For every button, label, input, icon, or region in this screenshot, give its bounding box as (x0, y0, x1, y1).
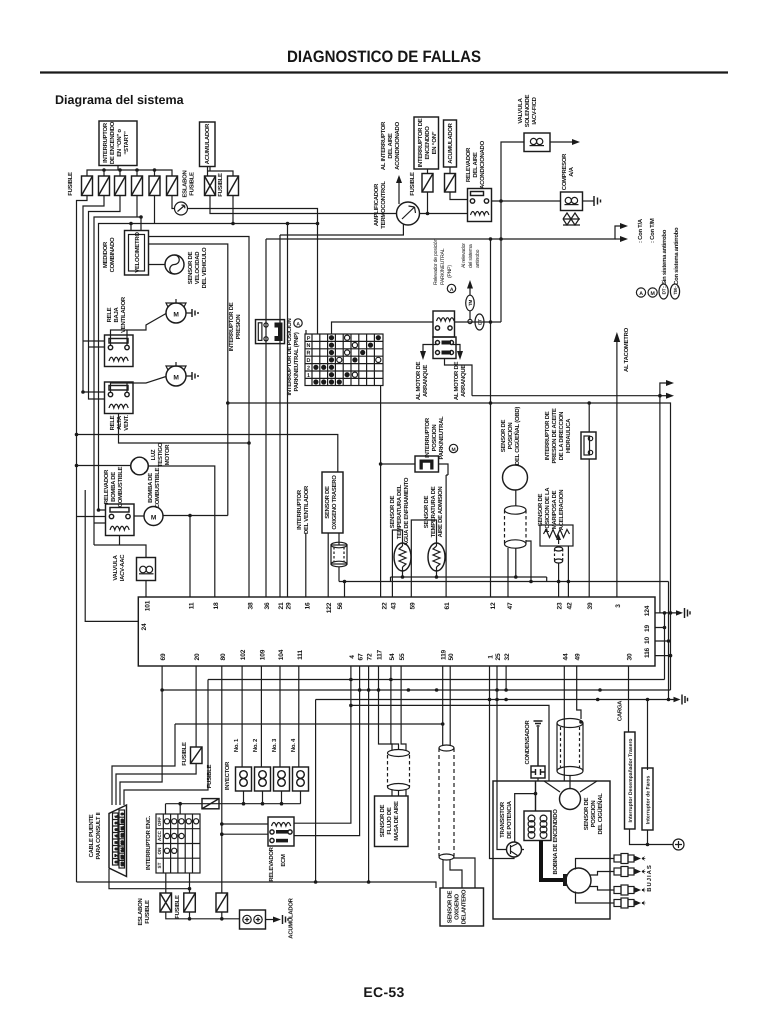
box SENSOR DE OXIGENO DELANTERO (440, 888, 484, 926)
fuse F2 (99, 176, 110, 196)
box INTERRUPTOR DE ENCENDIDO EN "ON" o "START" (99, 121, 137, 166)
relay relevador PNP (433, 311, 455, 337)
svg-text:COMPRESOR: COMPRESOR (561, 153, 568, 190)
svg-text:AMPLIFICADOR: AMPLIFICADOR (373, 183, 380, 226)
wire injector bottoms to bus y=803.7 (166, 791, 301, 814)
wire horizontal bus y=443 (119, 414, 250, 444)
svg-text:No. 1: No. 1 (233, 738, 240, 752)
svg-text:R: R (307, 351, 311, 357)
svg-text:(PNP): (PNP) (447, 265, 453, 278)
svg-text:N: N (307, 343, 311, 349)
relay RELEVADOR BOMBA DE COMBUSTIBLE (106, 504, 135, 536)
svg-text:5: 5 (115, 842, 119, 844)
svg-text:38: 38 (248, 602, 255, 609)
svg-text:102: 102 (240, 649, 247, 660)
svg-text:D: D (307, 358, 311, 364)
wire bus to relay bomba / relay to motor / motor to pin11 (77, 510, 228, 597)
wire pin72 down to bus y883.8 (368, 666, 370, 882)
symbol M circle (PNP switch) (449, 444, 457, 452)
svg-text:4: 4 (115, 835, 119, 837)
wire connector circle to right power bus (188, 209, 318, 335)
svg-text:BOMBA DE: BOMBA DE (147, 473, 154, 503)
fuse F13 (216, 893, 228, 912)
svg-text:OXIGENO: OXIGENO (454, 893, 461, 919)
lamp LUZ TESTIGO MOTOR (131, 457, 149, 475)
injector No.3 (274, 767, 290, 791)
svg-text:56: 56 (337, 602, 344, 609)
svg-text:2: 2 (307, 365, 310, 371)
svg-text:PARK/NEUTRAL (PNP): PARK/NEUTRAL (PNP) (293, 332, 300, 391)
node + circle (673, 839, 684, 850)
svg-text:10: 10 (644, 637, 651, 644)
svg-text:67: 67 (358, 653, 365, 660)
svg-text:ARRANQUE: ARRANQUE (460, 365, 467, 397)
svg-text:11: 11 (188, 602, 195, 609)
wire velocimetro to sensor (149, 264, 166, 266)
svg-text:BOMBA DE: BOMBA DE (110, 472, 117, 502)
svg-text:Al relevador: Al relevador (461, 243, 467, 268)
svg-text:VALVULA: VALVULA (517, 97, 524, 123)
fuse F4 (132, 176, 143, 196)
wire bus y=403 corner down right (228, 403, 671, 690)
wire staircase fuse F4 to bus x=94 (94, 196, 141, 546)
svg-text:DEL AIRE: DEL AIRE (387, 133, 394, 158)
svg-text:DEL VENTILADOR: DEL VENTILADOR (303, 485, 310, 534)
wire interruptores to +circle (630, 829, 674, 845)
wire branch to transistor (515, 794, 536, 842)
wire pin117 down to MAF (379, 666, 393, 750)
svg-text:INTERRUPTOR: INTERRUPTOR (296, 489, 303, 530)
svg-text:ACUMULADOR: ACUMULADOR (204, 123, 211, 164)
wire top bus connecting fuses (87, 170, 172, 176)
svg-text:DT: DT (478, 319, 483, 325)
crank sensor OBD cylinder (505, 490, 527, 548)
ignition switch grid (156, 814, 200, 873)
wire bus y=395.7 with double arrows right (445, 359, 669, 396)
wire bus y=679.5 (124, 680, 665, 806)
svg-text:: Con sistema antirrobo: : Con sistema antirrobo (673, 227, 680, 288)
svg-text:80: 80 (220, 653, 227, 660)
amplificador termocontrol circle (397, 202, 420, 225)
wire bus y=699.5 (316, 700, 674, 883)
relay RELEVADOR ECM (268, 817, 294, 846)
wire pin49 to resistor top (577, 666, 581, 719)
sensor velocidad circle (165, 255, 184, 274)
wire oxigeno trasero to pin56 / bus (327, 533, 329, 597)
svg-text:IACV-AAC: IACV-AAC (119, 554, 126, 581)
svg-text:ON: ON (157, 847, 162, 855)
svg-text:ST: ST (157, 862, 162, 868)
wire battery bus (166, 912, 240, 919)
box ACUMULADOR (top) (200, 122, 216, 167)
svg-text:104: 104 (278, 649, 285, 660)
wire bus y=690 with end arrow (162, 689, 670, 691)
CONSULT connector J1 (109, 805, 127, 877)
wire compresor to ground (583, 200, 595, 202)
svg-text:No. 4: No. 4 (290, 738, 297, 752)
wire fuse F9 to relay (450, 192, 468, 200)
svg-text:9: 9 (121, 813, 125, 815)
wire horizontal bus y=434.5 (77, 435, 338, 473)
svg-text:DEL AIRE: DEL AIRE (472, 152, 479, 177)
svg-text:INTERRUPTOR DE: INTERRUPTOR DE (544, 411, 551, 460)
svg-text:DEL VEHICULO: DEL VEHICULO (201, 247, 208, 288)
svg-text:VENTILADOR: VENTILADOR (120, 296, 127, 333)
svg-text:PARA CONSULT II: PARA CONSULT II (95, 812, 102, 859)
svg-text:30: 30 (627, 653, 634, 660)
svg-text:21: 21 (278, 602, 285, 609)
svg-text:49: 49 (575, 653, 582, 660)
svg-text:POSICION: POSICION (431, 425, 438, 452)
distributor assembly box (493, 781, 610, 919)
wire OBD cylinder to pins 12/47 (508, 541, 531, 597)
valve VALVULA IACV-AAC (137, 558, 156, 581)
wire pin4 down to relay ECM (294, 666, 351, 823)
wire ignition grid bottom to fusible link (166, 873, 190, 893)
svg-text:ACONDICIONADO: ACONDICIONADO (394, 121, 401, 169)
svg-text:Interruptor de Faros: Interruptor de Faros (646, 775, 652, 824)
svg-text:DELANTERO: DELANTERO (461, 889, 468, 924)
fusible link FL2 (160, 893, 172, 912)
svg-text:3: 3 (615, 604, 622, 608)
wire pin54 down to MAF (391, 666, 399, 750)
svg-text:SENSOR DE: SENSOR DE (379, 804, 386, 837)
wire AL TACOMETRO arrow (616, 340, 618, 597)
wire PNP chart connections down to ECM pins 16/122/56 (380, 386, 382, 465)
svg-text:CABLE PUENTE: CABLE PUENTE (88, 814, 95, 857)
wire condenser to dist box (537, 778, 539, 781)
svg-text:50: 50 (448, 653, 455, 660)
wire velocimetro right lower to x227.8 drop (149, 244, 228, 516)
wire pin44 down to dist box (563, 666, 565, 781)
right vertical bus wires (660, 396, 665, 680)
relay RELE BAJA VENTILADOR (105, 335, 134, 367)
svg-text:12: 12 (121, 833, 125, 837)
fuse F6 (167, 176, 178, 196)
wire valvula to pin101 and bus (145, 581, 147, 598)
svg-text:A/A: A/A (568, 166, 575, 176)
svg-text:TRANSISTOR: TRANSISTOR (499, 801, 506, 838)
chart open contacts (337, 335, 381, 377)
svg-text:36: 36 (264, 602, 271, 609)
wire oil switch up to bus and down to pin39 (588, 403, 590, 597)
svg-text:ECM: ECM (280, 854, 287, 867)
wire fuse F8 down to amplificador line (427, 192, 429, 214)
svg-text:FUSIBLE: FUSIBLE (217, 173, 224, 197)
fuse F3 (115, 176, 126, 196)
svg-text:18: 18 (213, 602, 220, 609)
wire bus y=705.4 (351, 705, 549, 781)
wire valvula solenoide right arrow (550, 141, 573, 143)
junction dots on buses (349, 678, 353, 682)
svg-text:DE ENCENDIDO: DE ENCENDIDO (109, 121, 116, 164)
legend symbols (636, 218, 680, 299)
double arrow node (top right) (266, 226, 622, 239)
motor ventilador 1 (166, 299, 198, 323)
box Interruptor de Faros (642, 768, 653, 830)
svg-text:M: M (151, 515, 157, 522)
svg-text:1: 1 (307, 373, 310, 379)
svg-text:39: 39 (587, 602, 594, 609)
compresor mount symbol (563, 213, 580, 225)
svg-text:22: 22 (382, 602, 389, 609)
wire fusible link down then right (bus y=217) (210, 196, 397, 214)
svg-text:VENT.: VENT. (123, 415, 130, 431)
svg-text:29: 29 (286, 602, 293, 609)
ECM box U1 (138, 597, 655, 666)
svg-text:DE LA DIRECCION: DE LA DIRECCION (558, 412, 565, 460)
wire bus y=724 (112, 724, 443, 805)
wire amplificador left to bus (420, 213, 468, 215)
svg-text:Relevador de posición: Relevador de posición (433, 239, 439, 285)
svg-text:117: 117 (377, 649, 384, 660)
svg-text:116: 116 (644, 647, 651, 658)
svg-text:14: 14 (121, 848, 125, 852)
svg-text:EN “ON”: EN “ON” (431, 131, 438, 154)
svg-text:SOLENOIDE: SOLENOIDE (524, 94, 531, 127)
svg-text:M: M (452, 447, 456, 453)
svg-text:55: 55 (399, 653, 406, 660)
throttle position sensor (540, 525, 573, 546)
rear oxygen sensor cylinder (331, 533, 347, 567)
svg-text:COMBUSTIBLE: COMBUSTIBLE (154, 467, 161, 508)
svg-text:VELOCIDAD: VELOCIDAD (194, 252, 201, 284)
svg-text:COMBUSTIBLE: COMBUSTIBLE (117, 466, 124, 507)
wire middle vertical drops x266/x280/x287.5 from top bus (266, 224, 288, 598)
svg-text:SENSOR DE: SENSOR DE (583, 797, 590, 830)
svg-text:ACELERACION: ACELERACION (558, 490, 565, 530)
symbol A circle (PNP relay) (447, 284, 455, 292)
injector No.2 (255, 767, 271, 791)
spark plug 1 (614, 854, 646, 864)
svg-text:INTERRUPTOR DE: INTERRUPTOR DE (228, 302, 235, 351)
thermistor agua (394, 543, 411, 572)
wire fuse F6 to connector circle (172, 196, 175, 209)
fuse F12 (184, 893, 196, 912)
svg-text:124: 124 (644, 605, 651, 616)
svg-text:1: 1 (115, 816, 119, 818)
svg-text:antirrobo: antirrobo (475, 249, 481, 268)
svg-text:FUSIBLE: FUSIBLE (206, 764, 213, 788)
fuse F8 (AC) (422, 174, 433, 193)
svg-text:13: 13 (121, 841, 125, 845)
motor ventilador 2 (166, 362, 198, 386)
svg-text:POSICION: POSICION (590, 801, 597, 828)
wire thermistors bottom bus (339, 567, 669, 700)
svg-text:MEDIDOR: MEDIDOR (102, 241, 109, 268)
svg-text:RELE: RELE (106, 307, 113, 322)
svg-text:ESLABON: ESLABON (182, 170, 189, 197)
svg-text:AIRE DE ADMISION: AIRE DE ADMISION (437, 487, 444, 538)
svg-text:VALVULA: VALVULA (112, 554, 119, 580)
wires MAF cylinder to label box (392, 790, 406, 797)
fuse F11 (horizontal on bus) (202, 799, 219, 809)
wire pin32 down to bus (505, 666, 507, 690)
svg-text:SENSOR DE: SENSOR DE (500, 419, 507, 452)
svg-text:SENSOR DE: SENSOR DE (187, 251, 194, 284)
chart contact dots (313, 335, 381, 385)
wire pin25 down (496, 666, 498, 781)
wire pin69 down to ignition area (120, 666, 162, 805)
svg-text:“START”: “START” (123, 131, 130, 155)
svg-text:BUJIAS: BUJIAS (646, 864, 653, 892)
svg-text:61: 61 (444, 602, 451, 609)
svg-text:109: 109 (259, 649, 266, 660)
wire fuse F10 down to bottom fuse (116, 764, 196, 806)
svg-text:INTERRUPTOR: INTERRUPTOR (102, 122, 109, 163)
svg-text:PRESION: PRESION (235, 315, 242, 340)
PNP contact chart grid (305, 334, 383, 386)
svg-text:ALTA: ALTA (116, 415, 123, 430)
wire pin1 down (489, 666, 491, 781)
svg-text:INYECTOR: INYECTOR (224, 761, 231, 790)
wires AL MOTOR DE ARRANQUE arrows (423, 345, 460, 353)
svg-text:PARK/NEUTRAL: PARK/NEUTRAL (438, 416, 445, 460)
svg-text:20: 20 (194, 653, 201, 660)
svg-text:MASA DE AIRE: MASA DE AIRE (393, 801, 400, 841)
svg-text:25: 25 (495, 653, 502, 660)
injector No.1 (236, 767, 252, 791)
fuse F10 (injectors) (191, 747, 203, 764)
spark plug 4 (614, 898, 646, 908)
svg-text:32: 32 (504, 653, 511, 660)
svg-text:101: 101 (145, 600, 152, 611)
svg-text:ACONDICIONADO: ACONDICIONADO (479, 140, 486, 188)
svg-text:P: P (307, 336, 311, 342)
box ACUMULADOR (right) (444, 120, 457, 167)
connector box below relay PNP (433, 337, 456, 359)
wire bus to relay alta coil (83, 347, 105, 399)
svg-text:6: 6 (115, 848, 119, 850)
wire transistor connections (490, 781, 525, 859)
wire pin55 down to MAF (401, 666, 406, 750)
svg-text:M: M (173, 375, 179, 382)
svg-text:AL TACOMETRO: AL TACOMETRO (623, 327, 630, 372)
svg-text:CARGA: CARGA (617, 700, 624, 721)
svg-text:EN “ON” o: EN “ON” o (116, 129, 123, 157)
wire battery to ground arrow (266, 919, 275, 921)
wire ignition grid top to bus (179, 804, 181, 814)
svg-text:AL MOTOR DE: AL MOTOR DE (453, 362, 460, 401)
svg-text:15: 15 (121, 855, 125, 859)
battery ACUMULADOR (240, 910, 266, 929)
svg-text:INTERRUPTOR ENC.: INTERRUPTOR ENC. (145, 815, 152, 870)
svg-text:: Con T/A: : Con T/A (637, 218, 644, 243)
svg-text:TM: TM (468, 300, 473, 307)
svg-text:: Con T/M: : Con T/M (649, 218, 656, 243)
svg-text:FLUJO DE: FLUJO DE (386, 807, 393, 834)
svg-text:72: 72 (367, 653, 374, 660)
compresor A/A box (561, 192, 583, 211)
PNP switch component (415, 456, 439, 472)
wire fuses to boxes (428, 167, 451, 174)
ground (compresor) (594, 196, 601, 206)
wire bus y883.8 to front O2 box (316, 882, 436, 888)
relay RELEVADOR DEL AIRE ACONDICIONADO (468, 189, 492, 222)
title rule (40, 71, 728, 73)
svg-text:1: 1 (488, 655, 495, 659)
junction dots on fuse bus (102, 168, 106, 172)
svg-text:DEL CIGÜEÑAL (OBD): DEL CIGÜEÑAL (OBD) (513, 407, 521, 465)
svg-text:ACC: ACC (157, 830, 162, 841)
crank angle sensor circle (560, 789, 581, 810)
wires distributor to spark plugs (576, 859, 615, 904)
svg-text:LUZ: LUZ (150, 449, 157, 460)
wire arrow up from amplificador (398, 181, 400, 204)
svg-text:EC-53: EC-53 (363, 984, 404, 1000)
svg-text:PRESION DE ACEITE: PRESION DE ACEITE (551, 408, 558, 463)
svg-text:IACV-FICD: IACV-FICD (531, 97, 538, 124)
svg-text:FUSIBLE: FUSIBLE (409, 172, 416, 196)
svg-text:RELEVADOR: RELEVADOR (103, 469, 110, 504)
svg-text:CONDENSADOR: CONDENSADOR (524, 719, 531, 764)
wire bus to PNP relay net (490, 239, 492, 403)
svg-text:MARIPOSA DE: MARIPOSA DE (551, 490, 558, 529)
svg-text:DE POTENCIA: DE POTENCIA (506, 800, 513, 839)
svg-text:2: 2 (115, 822, 119, 824)
wire staircase fuse F5 to bus x=98.5 (99, 196, 318, 511)
svg-text:7: 7 (115, 855, 119, 857)
svg-text:M: M (651, 291, 655, 297)
svg-text:MOTOR: MOTOR (164, 444, 171, 466)
svg-text:ESLABON: ESLABON (137, 898, 144, 925)
motor bomba de combustible (144, 507, 163, 526)
wire pin30 down CARGA (628, 666, 630, 732)
svg-text:PARK/NEUTRAL: PARK/NEUTRAL (440, 248, 446, 285)
svg-text:23: 23 (557, 602, 564, 609)
spark plug 3 (614, 885, 646, 895)
svg-text:54: 54 (389, 653, 396, 660)
oil pressure switch (581, 432, 596, 459)
wire thermistor tops to ECM pins (392, 520, 436, 597)
box SENSOR DE FLUJO DE MASA DE AIRE (375, 796, 409, 847)
svg-text:47: 47 (507, 602, 514, 609)
svg-text:HIDRAULICA: HIDRAULICA (565, 418, 572, 453)
spark plug 2 (614, 867, 646, 877)
svg-text:SENSOR DE: SENSOR DE (447, 890, 454, 923)
svg-text:122: 122 (326, 602, 333, 613)
wire left bus x76.5 to frame bottom (77, 881, 316, 883)
svg-text:COMBINADO: COMBINADO (109, 237, 116, 272)
svg-text:69: 69 (160, 653, 167, 660)
wire relay AC to compresor (492, 200, 561, 202)
svg-text:RELEVADOR: RELEVADOR (465, 147, 472, 182)
svg-text:AGUA DE ENFRIAMIENTO: AGUA DE ENFRIAMIENTO (403, 477, 410, 546)
wire O2 tube to front O2 box (443, 858, 475, 888)
wire pnp area drops to pins 59/61 (446, 475, 448, 597)
svg-text:10: 10 (121, 819, 125, 823)
svg-text:DEL CIGÜEÑAL: DEL CIGÜEÑAL (596, 793, 604, 835)
svg-text:43: 43 (390, 602, 397, 609)
svg-text:RELE: RELE (109, 415, 116, 430)
symbol DT oval (right of relay) (475, 314, 484, 330)
crank sensor OBD circle (503, 465, 528, 490)
svg-text:8: 8 (115, 861, 119, 863)
thick wire coil to distributor (541, 841, 564, 881)
wire bus y235 to amplificador (280, 225, 403, 236)
svg-text:SENSOR DE: SENSOR DE (389, 495, 396, 528)
svg-text:DT: DT (662, 288, 667, 294)
wire pot to pins 23/42 (555, 546, 563, 563)
wire bus to lamp and lamp to pin18 (77, 466, 215, 598)
svg-text:FUSIBLE: FUSIBLE (189, 172, 196, 196)
fuse F5 (149, 176, 160, 196)
svg-text:BOBINA DE ENCENDIDO: BOBINA DE ENCENDIDO (552, 809, 559, 875)
svg-text:SENSOR DE: SENSOR DE (537, 493, 544, 526)
transistor Q1 (507, 842, 522, 857)
svg-text:AL INTERRUPTOR: AL INTERRUPTOR (380, 121, 387, 170)
svg-text:24: 24 (141, 623, 148, 630)
